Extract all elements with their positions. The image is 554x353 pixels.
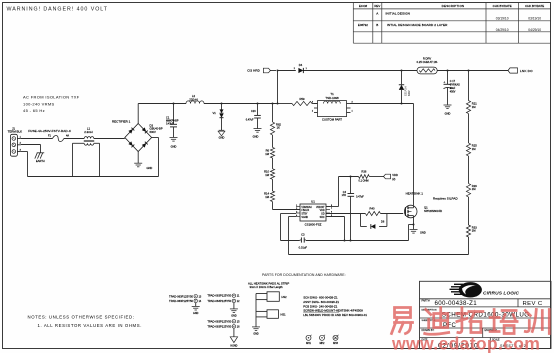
svg-text:www.edatop.com: www.edatop.com (391, 334, 540, 353)
earth ground (35, 153, 45, 163)
svg-text:4: 4 (296, 215, 297, 217)
wire chain to U1 (273, 202, 301, 210)
net label CI3 HRD (247, 68, 276, 73)
svg-text:TPAD-063P125Y50: TPAD-063P125Y50 (207, 319, 231, 323)
svg-text:R14: R14 (264, 192, 269, 196)
wire: J1 pin2 to earth (21, 145, 41, 153)
svg-text:GND: GND (193, 312, 199, 315)
resistor R6 1M (265, 135, 274, 158)
svg-text:DESCRIPTION: DESCRIPTION (442, 4, 465, 8)
svg-text:LNK DO: LNK DO (520, 69, 533, 73)
silpad note (433, 196, 459, 200)
svg-text:GND: GND (445, 112, 451, 116)
ground heatsink (252, 327, 260, 336)
net label LNK DO (508, 68, 533, 73)
svg-text:RECTIFIER 1: RECTIFIER 1 (112, 119, 131, 123)
logo Cirrus Logic (450, 282, 520, 297)
svg-text:R10: R10 (264, 169, 269, 173)
svg-text:D6: D6 (381, 219, 385, 223)
wire: J1 pin1 to fuse (21, 138, 53, 140)
svg-text:EARTH: EARTH (36, 159, 45, 163)
wire heatsink bus (255, 294, 257, 327)
ground V1 (218, 130, 225, 139)
capacitor C1 0.47uF (166, 103, 179, 138)
svg-text:D4: D4 (299, 63, 303, 67)
svg-text:MH1: MH1 (306, 343, 312, 345)
svg-text:VDD: VDD (320, 210, 325, 212)
svg-text:R29: R29 (472, 184, 477, 188)
hardware parts list (303, 296, 367, 318)
revision table (353, 2, 551, 43)
svg-text:C26: C26 (251, 110, 256, 113)
wire U1 pin wires left (281, 214, 297, 255)
wire VDD to U1 (326, 177, 339, 207)
op-amp U1 CS1600-FSZ (296, 200, 332, 227)
svg-text:PART #: PART # (422, 300, 431, 303)
svg-text:2.3mH: 2.3mH (84, 130, 93, 134)
test pads column 1 (169, 294, 202, 306)
inductor L2 220uH (186, 94, 204, 104)
svg-text:4A: 4A (66, 135, 69, 138)
watermark (392, 308, 550, 335)
resistor R62 1K (270, 103, 281, 136)
heatsink HS2 (256, 292, 287, 302)
wire source to ground (413, 219, 415, 230)
svg-text:TSD-1098: TSD-1098 (325, 96, 339, 100)
ground bridge (134, 163, 152, 170)
wire gnd loop B (289, 254, 469, 256)
svg-text:SPP20N60CFD: SPP20N60CFD (424, 209, 442, 213)
svg-text:3mm X 10mm X Bar Length: 3mm X 10mm X Bar Length (250, 285, 284, 289)
svg-text:SCHEM CRD1600-30WLUG: SCHEM CRD1600-30WLUG (442, 312, 530, 319)
diode D6 gate (361, 214, 387, 229)
ground C17 (444, 105, 452, 116)
svg-text:E06732: E06732 (358, 23, 368, 27)
svg-text:450V: 450V (450, 90, 456, 93)
svg-text:800V: 800V (408, 90, 411, 96)
net label VDD (384, 173, 399, 181)
notes text (28, 315, 143, 328)
svg-text:R62: R62 (276, 122, 281, 126)
svg-text:600-00438-Z1: 600-00438-Z1 (435, 300, 478, 307)
svg-text:R25: R25 (472, 144, 477, 148)
svg-text:100-240 VRMS: 100-240 VRMS (23, 101, 55, 106)
svg-text:ECO#: ECO# (359, 4, 368, 8)
svg-text:R40: R40 (370, 206, 375, 210)
svg-text:VDD: VDD (392, 173, 398, 177)
resistor R29 1M (466, 156, 477, 197)
svg-text:MH2: MH2 (320, 343, 326, 345)
svg-text:FBAUX: FBAUX (301, 209, 309, 212)
resistor R33 1M (466, 197, 477, 237)
resistor R10 1M (264, 158, 275, 179)
ground Q1 source (410, 230, 426, 235)
parts section title (262, 273, 346, 277)
svg-text:GND: GND (231, 314, 237, 317)
svg-text:2: 2 (296, 208, 297, 210)
svg-text:SCREW-WELD-MOUNT-HEATSNK-4/F45: SCREW-WELD-MOUNT-HEATSNK-4/F45509 (303, 308, 363, 312)
svg-text:SCH DWG- 600-00438-Z1: SCH DWG- 600-00438-Z1 (303, 296, 338, 300)
svg-text:x7R: x7R (342, 194, 347, 197)
svg-text:CUSTOM PART: CUSTOM PART (322, 118, 342, 122)
svg-text:REV C: REV C (523, 301, 543, 307)
svg-text:GND: GND (420, 230, 426, 234)
svg-text:R36: R36 (361, 170, 366, 174)
mosfet Q1 SPP20N60 (404, 205, 442, 218)
wire top bus (278, 70, 509, 72)
svg-text:CI3 HRD: CI3 HRD (247, 69, 260, 73)
svg-text:HS1: HS1 (281, 313, 287, 317)
svg-text:45 - 65 Hz: 45 - 65 Hz (23, 108, 45, 113)
svg-text:TPAD-063P125Y50: TPAD-063P125Y50 (207, 299, 231, 303)
watermark url (391, 334, 540, 353)
node junction vertical (277, 70, 279, 105)
fuse F1 FUSE-4A-250V (28, 129, 72, 142)
transformer T1 TSD-1098 (312, 92, 354, 122)
svg-text:HS2: HS2 (282, 295, 288, 299)
svg-text:04/29/10: 04/29/10 (528, 28, 541, 32)
svg-text:GND: GND (147, 166, 153, 170)
capacitor C26 0.47uF (246, 103, 261, 129)
choke L1 2.3mH (73, 126, 100, 176)
svg-text:MH3: MH3 (333, 343, 339, 345)
resistor R21 1M (466, 70, 477, 114)
resistor R36 (339, 170, 384, 183)
svg-text:03/19/10: 03/19/10 (496, 16, 509, 20)
svg-text:8: 8 (331, 205, 332, 207)
svg-text:LBL 54B400V PROD ID AND REV: LBL 54B400V PROD ID AND REV 603-00903-01 (303, 313, 367, 317)
svg-text:R DRV: R DRV (423, 56, 432, 60)
capacitor C17 68uF 450V (443, 70, 460, 105)
heatsink pads note (248, 281, 289, 288)
svg-text:7: 7 (331, 208, 332, 210)
warning text (7, 7, 108, 13)
svg-text:TERM BLK: TERM BLK (8, 130, 23, 134)
svg-text:TPAD-063P125Y50: TPAD-063P125Y50 (169, 299, 193, 303)
svg-text:CIRRUS LOGIC: CIRRUS LOGIC (483, 290, 520, 296)
svg-text:STBY: STBY (301, 214, 308, 216)
ground HGND triangle (230, 337, 237, 348)
svg-text:1K: 1K (277, 126, 280, 130)
svg-text:R21: R21 (472, 102, 477, 106)
heatsink HS1 (256, 310, 286, 319)
wire: J1 pin3 return (21, 138, 159, 177)
svg-text:3: 3 (296, 211, 297, 213)
svg-text:0.01uF: 0.01uF (299, 245, 308, 249)
svg-text:INTIAL DESIGN MADE BOARD 2 LAY: INTIAL DESIGN MADE BOARD 2 LAYER (387, 23, 448, 27)
ground C1 (170, 138, 178, 149)
wire gnd loop A (281, 225, 414, 241)
svg-text:PARTS FOR DOCUMENTATION AND HA: PARTS FOR DOCUMENTATION AND HARDWARE: (262, 273, 346, 277)
ground tp col1 (192, 306, 200, 314)
svg-text:VDD/ST: VDD/ST (316, 207, 325, 209)
svg-text:04/29/10: 04/29/10 (496, 28, 509, 32)
svg-text:C3: C3 (301, 232, 305, 236)
svg-text:REV: REV (374, 4, 380, 8)
capacitor C4 0.47uF (342, 176, 365, 242)
svg-text:0.47uF: 0.47uF (356, 195, 364, 198)
svg-text:Requires SILPAD: Requires SILPAD (433, 196, 459, 200)
AC source note (23, 94, 80, 113)
svg-text:GND: GND (253, 134, 259, 138)
test pads column 2 (207, 294, 240, 309)
capacitor C3 0.01uF (299, 232, 308, 249)
svg-text:0.47uF: 0.47uF (166, 123, 174, 126)
svg-text:TPAD-063P125Y50: TPAD-063P125Y50 (207, 325, 231, 329)
ground C26 (253, 129, 262, 139)
svg-text:U1: U1 (311, 200, 315, 204)
bridge rectifier D3 GBU4J-BP (112, 104, 163, 164)
svg-text:SGND: SGND (301, 217, 308, 219)
svg-text:GD: GD (321, 214, 325, 216)
svg-text:DRAWN BY:: DRAWN BY: (422, 329, 435, 332)
svg-text:Q1: Q1 (424, 205, 428, 209)
svg-text:CS1600-FSZ: CS1600-FSZ (305, 222, 322, 226)
svg-text:FUSE-4A-250V-FSTV-RAD-C: FUSE-4A-250V-FSTV-RAD-C (28, 129, 72, 133)
test pads 15 16 (207, 319, 240, 337)
svg-text:TPAD-063P125Y50: TPAD-063P125Y50 (207, 294, 231, 298)
svg-text:TPAD-063P125Y50: TPAD-063P125Y50 (169, 294, 193, 298)
svg-text:(2): (2) (392, 178, 395, 181)
wire: fuse to L1 (64, 138, 84, 140)
wire chain bottom (468, 237, 470, 255)
svg-text:HEATSINK 1: HEATSINK 1 (406, 191, 424, 195)
svg-text:GND: GND (219, 136, 225, 140)
diode D4 (294, 63, 308, 73)
svg-text:R33: R33 (472, 225, 477, 229)
svg-text:SRC: SRC (320, 217, 325, 219)
svg-text:NOTES: UNLESS OTHERWISE SPECIF: NOTES: UNLESS OTHERWISE SPECIFIED: (28, 315, 135, 320)
wire drain vertical (413, 104, 415, 206)
svg-text:6: 6 (331, 211, 332, 213)
connector J1 (8, 126, 23, 156)
svg-text:600V: 600V (150, 130, 156, 134)
svg-text:V1: V1 (213, 111, 217, 115)
svg-text:WARNING! DANGER! 400 VOLT: WARNING! DANGER! 400 VOLT (7, 7, 108, 13)
mounting holes MH1 MH2 MH3 (306, 335, 339, 345)
svg-text:CHK BY/DATE: CHK BY/DATE (525, 4, 544, 8)
svg-text:5: 5 (331, 215, 332, 217)
svg-text:INITIAL DESIGN: INITIAL DESIGN (386, 12, 411, 16)
svg-text:ASSY DWG- 600-00438-Z1: ASSY DWG- 600-00438-Z1 (303, 300, 339, 304)
resistor R25 1M (466, 114, 477, 156)
svg-text:R6: R6 (266, 148, 270, 152)
resistor R40 gate (326, 206, 403, 215)
sense resistor R DRV 0.25 OHM (417, 56, 438, 74)
svg-text:03/19/10: 03/19/10 (528, 16, 541, 20)
svg-text:VRMS/AC: VRMS/AC (301, 206, 312, 209)
svg-text:GND: GND (253, 333, 259, 336)
resistor R59 (292, 97, 312, 106)
svg-text:0.1 OHM: 0.1 OHM (358, 179, 368, 182)
svg-text:0.25 OHM AT 1%: 0.25 OHM AT 1% (417, 60, 438, 64)
diode D5 ES1PDH (399, 70, 411, 105)
svg-text:1. ALL RESISTOR VALUES ARE IN: 1. ALL RESISTOR VALUES ARE IN OHMS. (38, 323, 143, 328)
heatsink note (406, 191, 424, 195)
svg-text:HGND: HGND (230, 344, 237, 347)
svg-text:GND: GND (171, 145, 177, 149)
svg-text:+: + (443, 80, 445, 84)
svg-text:0.47uF: 0.47uF (246, 118, 254, 121)
wire aux return (326, 217, 346, 242)
wire rectified rail (138, 103, 413, 105)
varistor V1 (213, 103, 224, 131)
title block (420, 281, 552, 349)
ground tp col2 (230, 309, 238, 317)
svg-text:ALL HEATSINK PADS AL STRIP: ALL HEATSINK PADS AL STRIP (248, 281, 289, 285)
svg-text:1: 1 (296, 205, 297, 207)
svg-text:CHK BY/DATE: CHK BY/DATE (493, 4, 512, 8)
svg-text:AC FROM ISOLATION TXF: AC FROM ISOLATION TXF (23, 94, 80, 99)
resistor R14 1M (264, 179, 275, 201)
wire: L1 to bridge (94, 138, 125, 140)
svg-text:B: B (376, 23, 378, 27)
svg-text:R59: R59 (300, 97, 305, 101)
